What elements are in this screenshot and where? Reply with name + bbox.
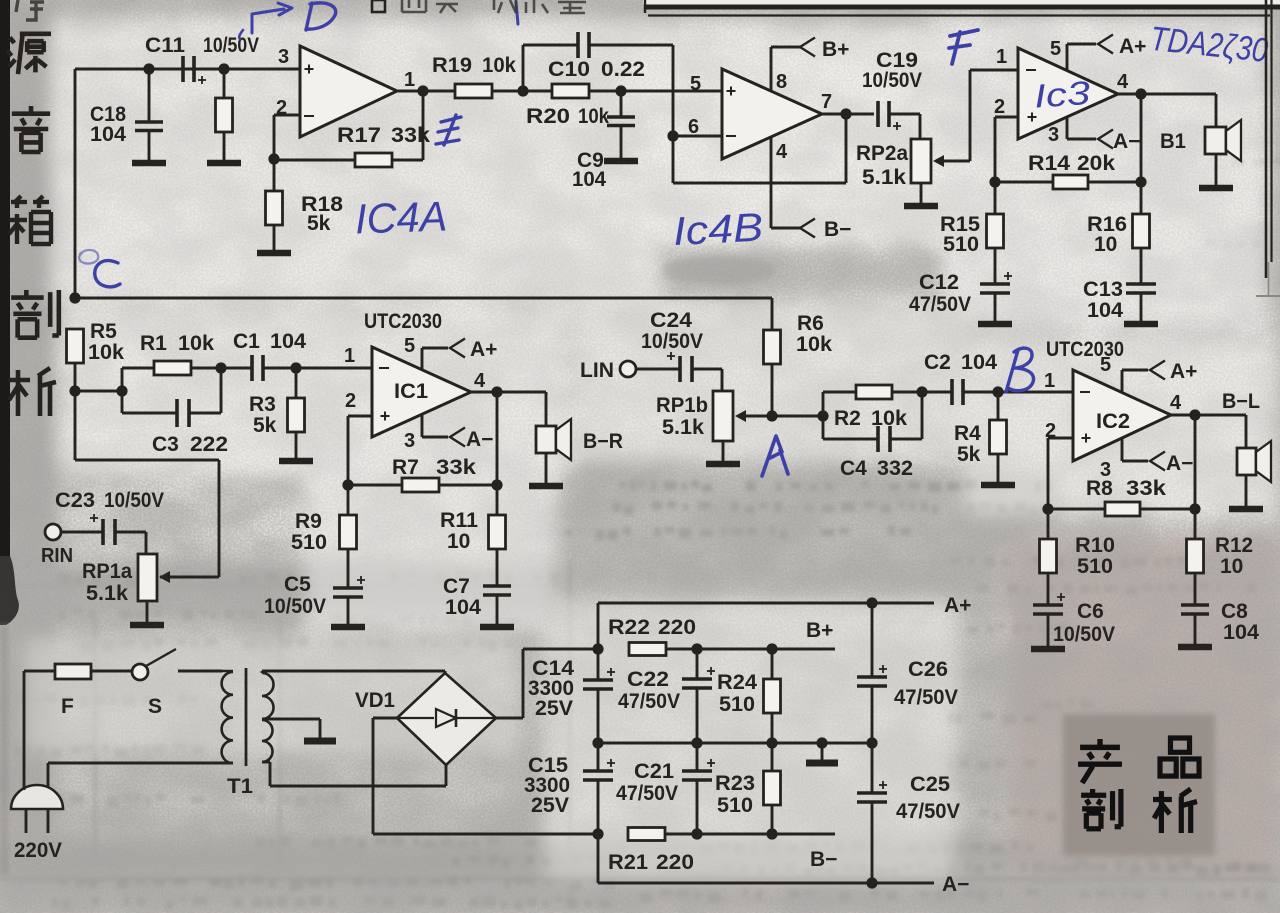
capacitor C23 [61, 514, 146, 554]
op-amp IC2 [1073, 370, 1171, 461]
switch S [132, 649, 176, 680]
wire pin2 IC4A [274, 115, 300, 159]
svg-text:C2: C2 [924, 351, 951, 374]
character xi2 [1153, 789, 1197, 833]
resistor bias IC4A [216, 69, 233, 161]
svg-text:UTC2030: UTC2030 [1046, 338, 1124, 361]
frame right edge [1256, 0, 1280, 296]
plus mark IC2 [1082, 437, 1091, 439]
pin 3 stub A- IC2 [1122, 438, 1148, 461]
label R10 510 [1075, 534, 1115, 578]
node after R20 [615, 85, 626, 96]
resistor R4 [990, 392, 1007, 482]
ground C7 [480, 624, 514, 631]
arrow A- IC3 [1098, 130, 1113, 149]
annotation TDA2030 [1148, 20, 1269, 70]
svg-text:IC1: IC1 [394, 380, 428, 403]
wire to pin1 IC2 [998, 391, 1073, 394]
title character pou [11, 290, 59, 338]
svg-text:5k: 5k [307, 212, 331, 235]
label C18 104 [90, 103, 126, 146]
speaker B1 [1205, 94, 1241, 186]
svg-text:5.1k: 5.1k [862, 166, 906, 189]
svg-text:104: 104 [90, 123, 126, 146]
svg-text:R1: R1 [140, 332, 167, 355]
svg-text:B+: B+ [806, 619, 833, 642]
node C2 left [916, 386, 927, 397]
node feedback IC4A [268, 153, 279, 164]
minus mark IC2 [1080, 391, 1090, 393]
resistor R7 [348, 478, 497, 492]
ground mid rail [806, 743, 838, 763]
arrow A+ IC1 [450, 339, 465, 358]
speaker B-R [536, 392, 571, 484]
svg-text:R22: R22 [608, 616, 650, 639]
wire bridge minus output [373, 718, 598, 834]
pin 3 stub A- [1067, 116, 1096, 139]
svg-text:Ic3: Ic3 [1033, 74, 1092, 115]
wire IC4B output [822, 113, 874, 116]
svg-text:C26: C26 [908, 658, 948, 681]
svg-text:1: 1 [1044, 370, 1055, 392]
arrow A- IC1 [450, 428, 465, 447]
resistor R24 [764, 649, 781, 743]
resistor R2 [823, 385, 922, 439]
resistor R12 [1187, 509, 1204, 605]
arrow B+ [800, 38, 815, 57]
node R4 top [992, 386, 1003, 397]
svg-text:220: 220 [656, 851, 694, 874]
resistor R5 [67, 329, 84, 391]
capacitor C14 [583, 649, 615, 743]
svg-text:4: 4 [1117, 71, 1129, 93]
label R15 510 [940, 213, 980, 256]
resistor R19 [455, 84, 523, 98]
arrow A- IC2 [1150, 452, 1165, 471]
svg-text:C23: C23 [55, 489, 95, 512]
terminal LIN [620, 361, 636, 377]
ground RP1a [130, 622, 164, 629]
svg-text:104: 104 [961, 351, 997, 374]
svg-text:R14: R14 [1028, 152, 1070, 175]
annotation arrow D [252, 3, 292, 33]
ground C5 [331, 624, 365, 631]
svg-text:25V: 25V [535, 697, 573, 720]
svg-text:A+: A+ [470, 338, 497, 361]
node output IC2 [1189, 409, 1200, 420]
white strip above frame [643, 0, 1280, 5]
svg-text:47/50V: 47/50V [896, 800, 960, 823]
svg-text:C12: C12 [919, 271, 959, 294]
svg-text:5: 5 [1100, 354, 1111, 376]
svg-text:UTC2030: UTC2030 [364, 310, 442, 333]
svg-text:B1: B1 [1160, 130, 1186, 153]
resistor R16 [1133, 182, 1150, 284]
label RP2a 5.1k [856, 142, 908, 189]
svg-text:222: 222 [190, 433, 228, 456]
wire plug to fuse [24, 671, 55, 790]
svg-text:C10: C10 [548, 58, 590, 81]
potentiometer RP1b [713, 391, 771, 461]
capacitor C18 [135, 69, 163, 161]
svg-text:2: 2 [345, 390, 356, 412]
node C11-C18 [143, 63, 154, 74]
svg-text:IC2: IC2 [1096, 410, 1130, 433]
resistor R1 [122, 361, 221, 413]
svg-text:220: 220 [658, 616, 696, 639]
svg-text:C24: C24 [650, 309, 692, 332]
ground RP1b [706, 461, 740, 468]
minus mark IC3 [1026, 69, 1036, 71]
svg-text:104: 104 [1087, 299, 1123, 322]
wire mid rail 0V [598, 742, 872, 745]
svg-text:1: 1 [344, 345, 355, 367]
svg-text:T1: T1 [227, 775, 253, 798]
svg-text:1: 1 [996, 46, 1007, 68]
svg-text:R7: R7 [392, 456, 419, 479]
byline partial characters [402, 0, 586, 13]
node output IC3 [1135, 88, 1146, 99]
ground C8 [1178, 644, 1212, 651]
svg-text:R5: R5 [90, 320, 117, 343]
plus mark IC1 [381, 415, 390, 417]
resistor R20 [523, 84, 621, 98]
svg-text:R9: R9 [295, 510, 322, 533]
arrow B- [800, 219, 815, 238]
annotation Ic3 [1033, 74, 1092, 115]
label RP1b 5.1k [656, 394, 708, 439]
svg-text:R12: R12 [1215, 534, 1253, 557]
svg-text:332: 332 [877, 457, 913, 480]
svg-text:1: 1 [404, 69, 415, 91]
svg-text:4: 4 [1170, 392, 1182, 414]
resistor R14 [995, 175, 1141, 189]
arrow A+ IC3 [1098, 35, 1113, 54]
svg-text:C5: C5 [284, 573, 311, 596]
svg-text:R11: R11 [440, 509, 478, 532]
label C5 10/50V [264, 573, 326, 618]
svg-text:A−: A− [942, 873, 969, 896]
resistor R23 [764, 743, 781, 834]
node R3 top [290, 362, 301, 373]
label R9 510 [291, 510, 327, 554]
product analysis box [1063, 714, 1215, 856]
ground R4 [981, 482, 1015, 489]
pin 8 supply stub B+ [771, 47, 800, 91]
annotation letter D [306, 3, 336, 30]
node R24 top [766, 643, 777, 654]
svg-text:7: 7 [821, 91, 832, 113]
op-amp IC4B [722, 69, 822, 159]
label C21 47/50V [616, 760, 678, 805]
ground R3 [279, 458, 313, 465]
svg-text:10: 10 [1220, 555, 1243, 578]
ground speaker B-L [1229, 506, 1263, 513]
feedback wire IC2 [1042, 415, 1200, 515]
svg-text:510: 510 [291, 531, 327, 554]
label C3 222 [152, 433, 228, 456]
label R6 10k [796, 312, 832, 356]
label C1 104 [233, 330, 306, 353]
svg-text:B+: B+ [822, 38, 849, 61]
svg-text:C21: C21 [634, 760, 674, 783]
byline checkbox [372, 0, 385, 12]
svg-text:5: 5 [1050, 38, 1061, 60]
wire B- rail [697, 833, 835, 836]
capacitor C4 [823, 392, 922, 452]
label C7 104 [443, 575, 481, 619]
svg-text:47/50V: 47/50V [618, 690, 680, 713]
label RP1a 5.1k [82, 560, 132, 605]
ground speaker B1 [1199, 185, 1233, 192]
label C8 104 [1221, 600, 1259, 644]
svg-text:20k: 20k [1077, 152, 1115, 175]
annotation letter B [1006, 348, 1034, 392]
label C15 3300 25V [524, 754, 570, 817]
svg-text:A−: A− [466, 428, 493, 451]
svg-text:10/50V: 10/50V [104, 489, 164, 512]
svg-text:B−L: B−L [1222, 390, 1260, 413]
svg-text:10/50V: 10/50V [641, 330, 703, 353]
capacitor C24 [636, 352, 722, 391]
label C4 332 [840, 457, 913, 480]
pin 5 stub A+ IC1 [422, 348, 448, 370]
svg-text:104: 104 [572, 168, 606, 191]
svg-text:R19: R19 [432, 54, 472, 77]
pin 5 stub A+ [1067, 44, 1096, 70]
svg-text:10k: 10k [178, 332, 214, 355]
annotation letter F [949, 30, 978, 64]
svg-text:R4: R4 [954, 422, 981, 445]
capacitor C21 [682, 743, 715, 834]
wire secondary top to bridge [262, 671, 445, 676]
label R1 10k [140, 332, 214, 355]
ground speaker B-R [529, 483, 563, 490]
svg-text:B−R: B−R [583, 430, 623, 453]
svg-text:A−: A− [1166, 452, 1193, 475]
capacitor C13 [1126, 284, 1156, 322]
svg-text:S: S [148, 695, 162, 718]
label R20 10k [526, 105, 609, 128]
label C12 47/50V [909, 271, 971, 316]
capacitor C9 [607, 91, 635, 159]
node C21 top [691, 737, 702, 748]
svg-text:C25: C25 [910, 773, 950, 796]
label C24 10/50V [641, 309, 703, 353]
wire bridge plus output [496, 649, 598, 718]
svg-text:C11: C11 [145, 34, 185, 57]
label C11 10/50V [145, 34, 259, 57]
svg-text:10k: 10k [88, 341, 124, 364]
node output IC4B [840, 108, 851, 119]
ground R18 [257, 250, 291, 257]
svg-text:R10: R10 [1075, 534, 1115, 557]
capacitor C25 [857, 743, 887, 883]
annotation tick top left [239, 30, 243, 39]
label C23 10/50V [55, 489, 164, 512]
svg-text:3: 3 [404, 430, 415, 452]
svg-text:33k: 33k [1126, 477, 1166, 500]
plus mark IC3 [1028, 116, 1037, 118]
svg-text:LIN: LIN [580, 359, 614, 382]
capacitor C5 [333, 576, 365, 624]
ground RP2a [904, 203, 938, 210]
wire pin2 IC3 [995, 117, 1018, 182]
node pin6 IC4B [667, 130, 678, 141]
svg-text:10/50V: 10/50V [862, 69, 922, 92]
title character yin [12, 106, 50, 152]
resistor R17 [274, 91, 423, 167]
resistor R18 [266, 160, 283, 251]
feedback wire IC4B [673, 114, 846, 183]
capacitor C12 [980, 272, 1012, 322]
svg-text:5k: 5k [957, 443, 981, 466]
capacitor C3 [122, 368, 221, 427]
label R14 20k [1028, 152, 1115, 175]
wire node A to R2 [772, 415, 823, 418]
label R12 10 [1215, 534, 1253, 578]
svg-text:C8: C8 [1221, 600, 1248, 623]
svg-text:R23: R23 [715, 772, 755, 795]
svg-text:220V: 220V [14, 839, 62, 862]
bleed-through print texture [660, 256, 776, 284]
svg-text:33k: 33k [391, 124, 430, 147]
label R8 33k [1086, 477, 1166, 500]
svg-text:R8: R8 [1086, 477, 1113, 500]
svg-text:3: 3 [1048, 124, 1059, 146]
center tap wire [262, 719, 320, 738]
svg-text:4: 4 [474, 370, 486, 392]
label C19 10/50V [862, 49, 922, 92]
transformer T1 secondary upper [262, 673, 274, 719]
ground C13 [1124, 321, 1158, 328]
svg-text:C7: C7 [443, 575, 470, 598]
svg-text:5.1k: 5.1k [662, 416, 704, 439]
resistor R22 [629, 643, 697, 656]
capacitor C8 [1181, 605, 1209, 644]
svg-text:C13: C13 [1083, 278, 1123, 301]
svg-text:10: 10 [447, 530, 470, 553]
left margin ink blotch [0, 556, 19, 625]
resistor R15 [987, 182, 1004, 284]
capacitor C19 [878, 101, 920, 139]
svg-text:10: 10 [1094, 233, 1117, 256]
wire to pin1 IC1 [296, 367, 372, 370]
node C26 top [866, 597, 877, 608]
svg-text:R21: R21 [608, 851, 648, 874]
node R1 C3 left [116, 385, 127, 396]
feedback node wire IC3 [989, 94, 1146, 188]
svg-text:3: 3 [278, 46, 289, 68]
diode inside VD1 [399, 709, 494, 727]
wire net C [75, 298, 772, 330]
svg-text:C3: C3 [152, 433, 179, 456]
title partial character top left [16, 0, 44, 20]
label C14 3300 25V [528, 657, 574, 720]
minus input mark IC4A [304, 115, 314, 117]
left margin lower shade [0, 625, 8, 875]
svg-text:47/50V: 47/50V [616, 782, 678, 805]
svg-text:B−: B− [824, 218, 851, 241]
svg-text:510: 510 [1077, 555, 1113, 578]
svg-text:47/50V: 47/50V [909, 293, 971, 316]
capacitor C1 [221, 355, 296, 381]
annotation Ic4B [672, 206, 764, 255]
svg-text:25V: 25V [531, 794, 569, 817]
wire input net top-left [75, 69, 300, 298]
label R23 510 [715, 772, 755, 817]
bridge rectifier VD1 [397, 673, 496, 765]
pin 3 stub A- IC1 [422, 414, 448, 437]
wire to pin1 IC3 [970, 69, 1018, 72]
node R5 bottom [69, 385, 80, 396]
minus mark IC1 [379, 367, 389, 369]
op-amp IC1 [372, 347, 471, 437]
svg-text:104: 104 [445, 596, 481, 619]
resistor R9 [340, 485, 357, 588]
ground C9 [604, 158, 638, 165]
wire secondary bottom to bridge [262, 762, 446, 786]
capacitor C10 bypass branch [523, 32, 673, 183]
node C11 right [218, 63, 229, 74]
resistor R3 [288, 368, 305, 459]
wire IC2 output [1171, 414, 1246, 417]
ground C18 [132, 160, 166, 167]
svg-text:IC4A: IC4A [354, 192, 448, 242]
svg-text:A+: A+ [944, 594, 971, 617]
node A- right [866, 877, 877, 888]
node C21 bottom [691, 828, 702, 839]
character pou2 [1081, 789, 1121, 829]
resistor R6 [764, 330, 781, 416]
annotation IC4A [354, 192, 448, 242]
capacitor C7 [483, 586, 511, 624]
wire primary return [48, 763, 233, 787]
label R17 33k [337, 124, 430, 147]
ground C12 [978, 321, 1012, 328]
svg-text:10k: 10k [578, 105, 609, 128]
svg-text:10/50V: 10/50V [1053, 623, 1115, 646]
svg-text:47/50V: 47/50V [894, 686, 958, 709]
pin 5 stub A+ IC2 [1122, 370, 1148, 392]
label R3 5k [249, 393, 277, 437]
annotation letter E [436, 115, 461, 145]
transformer T1 core [245, 668, 248, 766]
wire fuse to switch [91, 670, 132, 673]
wire B+ rail [697, 648, 835, 651]
svg-text:510: 510 [719, 693, 755, 716]
resistor R8 [1048, 502, 1195, 516]
transformer T1 secondary lower [262, 720, 273, 762]
capacitor C6 [1033, 593, 1065, 646]
svg-text:Ic4B: Ic4B [672, 206, 764, 255]
op-amp IC3 [1018, 48, 1118, 139]
svg-text:8: 8 [776, 71, 787, 93]
svg-text:A+: A+ [1170, 360, 1197, 383]
svg-text:RP2a: RP2a [856, 142, 908, 165]
wire IC4A output [397, 90, 455, 93]
potentiometer RP2a [911, 70, 970, 204]
wire to R1 C3 network [75, 390, 122, 393]
label R7 33k [392, 456, 476, 479]
svg-text:5: 5 [404, 335, 415, 357]
resistor R21 [628, 828, 697, 841]
annotation letter A [762, 436, 788, 476]
svg-text:A−: A− [1113, 130, 1140, 153]
node E output IC4A [417, 85, 428, 96]
label C9 104 [572, 149, 606, 191]
svg-text:R20: R20 [526, 105, 570, 128]
